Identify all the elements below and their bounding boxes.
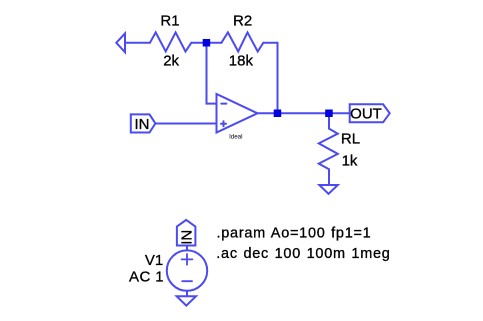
svg-text:.param Ao=100 fp1=1: .param Ao=100 fp1=1: [217, 226, 372, 242]
svg-text:IN: IN: [135, 116, 150, 133]
svg-text:R1: R1: [160, 12, 179, 29]
svg-text:OUT: OUT: [350, 106, 382, 123]
svg-text:2k: 2k: [163, 52, 179, 69]
svg-text:18k: 18k: [229, 52, 254, 69]
svg-text:1k: 1k: [342, 153, 358, 170]
svg-text:Ideal: Ideal: [229, 133, 242, 140]
svg-text:AC 1: AC 1: [129, 268, 164, 285]
svg-text:R2: R2: [233, 12, 252, 29]
svg-text:IN: IN: [179, 230, 196, 245]
svg-text:V1: V1: [145, 252, 163, 269]
svg-text:RL: RL: [341, 131, 360, 148]
svg-text:.ac dec 100 100m 1meg: .ac dec 100 100m 1meg: [216, 246, 390, 262]
